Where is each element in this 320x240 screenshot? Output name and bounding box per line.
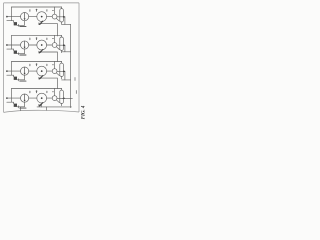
- svg-text:FIG. 4: FIG. 4: [81, 105, 85, 119]
